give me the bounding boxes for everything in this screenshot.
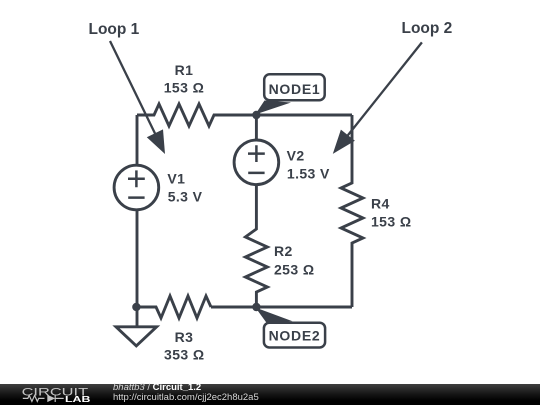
svg-text:NODE1: NODE1 bbox=[269, 81, 321, 97]
svg-text:Loop 2: Loop 2 bbox=[402, 20, 453, 37]
svg-text:V2: V2 bbox=[287, 147, 305, 163]
svg-text:R1: R1 bbox=[175, 62, 194, 78]
svg-text:LAB: LAB bbox=[65, 395, 91, 404]
svg-text:V1: V1 bbox=[167, 171, 185, 187]
svg-text:253 Ω: 253 Ω bbox=[274, 262, 314, 278]
svg-text:353 Ω: 353 Ω bbox=[164, 346, 204, 362]
svg-text:153 Ω: 153 Ω bbox=[371, 214, 411, 230]
svg-text:R4: R4 bbox=[371, 195, 390, 211]
svg-text:NODE2: NODE2 bbox=[269, 327, 321, 343]
svg-text:1.53 V: 1.53 V bbox=[287, 165, 330, 181]
svg-text:5.3 V: 5.3 V bbox=[168, 189, 203, 205]
svg-text:153 Ω: 153 Ω bbox=[164, 80, 204, 96]
svg-text:R3: R3 bbox=[175, 329, 194, 345]
svg-text:R2: R2 bbox=[274, 243, 293, 259]
svg-text:Loop 1: Loop 1 bbox=[89, 21, 140, 38]
